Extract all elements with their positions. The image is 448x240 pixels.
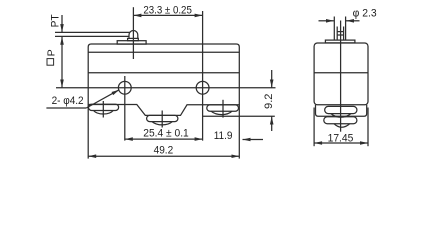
mounting hole left — [118, 81, 131, 94]
side flange — [325, 40, 355, 43]
terminal right lug — [207, 105, 239, 111]
PT dimension arrow — [61, 15, 63, 32]
side terminal lip 1 — [331, 114, 351, 118]
switch body outline (front view) — [88, 44, 239, 115]
hole horizontal center line — [56, 87, 276, 89]
P dimension line — [61, 37, 63, 88]
terminal left lip — [94, 111, 114, 115]
terminal left center line — [102, 101, 104, 118]
dim 9.2 upper arrow — [271, 70, 273, 88]
side terminal strip — [316, 105, 367, 117]
terminal center center line — [161, 111, 163, 128]
mounting hole right — [196, 81, 209, 94]
terminal right center line — [222, 100, 224, 118]
svg-text:25.4 ± 0.1: 25.4 ± 0.1 — [143, 128, 189, 140]
plunger center line — [132, 7, 134, 59]
dim 9.2 bottom extension line — [203, 115, 275, 117]
terminal right lip — [211, 111, 232, 114]
body cover seam line 1 — [88, 51, 239, 53]
plunger flange — [117, 41, 146, 44]
body cover seam line 2 — [88, 72, 239, 74]
side terminal lip 2 — [334, 124, 350, 128]
svg-text:2- φ4.2: 2- φ4.2 — [52, 95, 84, 107]
leader 2-phi4.2 — [86, 90, 119, 108]
side view seam — [314, 72, 368, 74]
P square symbol — [47, 59, 54, 66]
dim phi2.3 right arrow — [346, 20, 360, 22]
right hole vertical center line — [202, 11, 204, 141]
side terminal lug 1 — [325, 106, 357, 113]
pin tick 1 — [337, 31, 343, 33]
pin tick 2 — [337, 34, 343, 36]
extension line operating position — [55, 35, 129, 37]
terminal left lug — [89, 104, 119, 110]
side terminal lug 2 — [324, 117, 357, 124]
dim 17.45 extension right — [367, 108, 369, 147]
svg-text:17.45: 17.45 — [328, 133, 354, 145]
dim line 25.4 — [125, 138, 203, 140]
dim 23.3 extension line free position — [55, 31, 130, 33]
svg-text:49.2: 49.2 — [154, 145, 174, 157]
svg-text:P: P — [45, 49, 57, 56]
dim 9.2 lower arrow — [271, 117, 273, 132]
side view center line — [340, 21, 342, 132]
svg-text:φ 2.3: φ 2.3 — [353, 7, 377, 19]
terminal center lug — [147, 115, 178, 121]
svg-text:23.3 ± 0.25: 23.3 ± 0.25 — [143, 4, 192, 16]
leader 2-phi4.2 shoulder — [46, 107, 86, 109]
dim line 17.45 — [314, 142, 368, 144]
side pin inner right — [343, 27, 345, 41]
svg-text:PT: PT — [50, 14, 62, 27]
left hole vertical center line — [124, 76, 126, 141]
side pin outer right — [345, 17, 347, 41]
plunger collar — [128, 38, 139, 40]
dim 49.2 extension right — [238, 105, 240, 159]
dim phi2.3 left arrow — [319, 20, 334, 22]
side pin outer left — [333, 17, 335, 41]
terminal center lip — [152, 122, 172, 125]
side pin inner left — [336, 27, 338, 41]
dim line 23.3 — [133, 14, 202, 16]
plunger dome — [129, 31, 138, 39]
dim 17.45 extension left — [313, 108, 315, 147]
svg-text:9.2: 9.2 — [263, 94, 275, 110]
dim 11.9 outside arrow — [243, 139, 264, 141]
dim line 49.2 — [88, 155, 239, 157]
dim 49.2 extension left — [87, 105, 89, 159]
side view body — [314, 43, 368, 105]
svg-text:11.9: 11.9 — [214, 130, 233, 142]
